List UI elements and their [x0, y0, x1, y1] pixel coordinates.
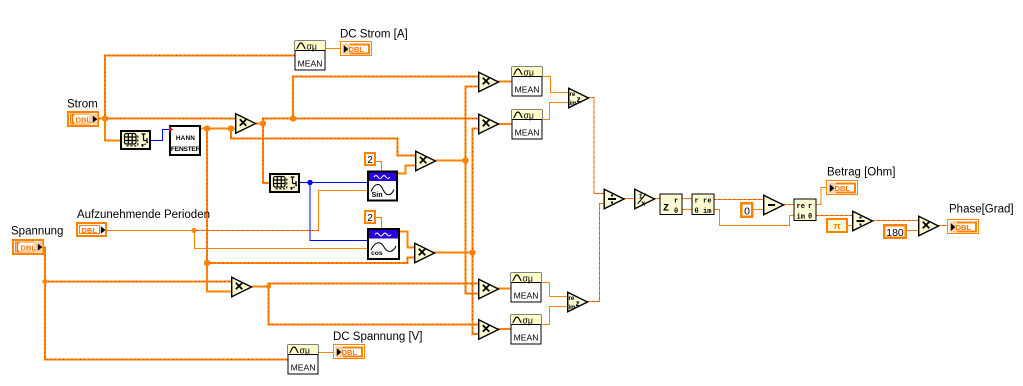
polar-to-complex — [692, 194, 714, 216]
junction blue array size — [307, 180, 312, 185]
MEAN2 — [512, 110, 542, 139]
svg-text:cos: cos — [371, 250, 383, 257]
wire Perioden to sine phase — [195, 191, 369, 231]
array size 2 — [270, 174, 299, 192]
svg-text:im: im — [703, 208, 711, 216]
svg-text:DBL: DBL — [82, 226, 98, 235]
multiply M1 — [479, 72, 499, 92]
wire theta to polar-to-complex — [682, 209, 693, 211]
constant 0 — [741, 203, 752, 217]
wire DC-Strom MEAN to indicator — [326, 48, 340, 50]
svg-text:re: re — [703, 198, 711, 206]
wire M3 to MEAN3 — [498, 288, 511, 290]
multiply cosine — [415, 243, 435, 263]
MEAN3 — [511, 273, 541, 302]
wire complex im to block3 im — [714, 210, 795, 226]
svg-text:im: im — [797, 214, 805, 222]
constant pi — [827, 219, 847, 232]
wire windowed current riser to M1 input1 — [293, 77, 479, 120]
svg-text:DC Spannung [V]: DC Spannung [V] — [333, 331, 423, 343]
wire Perioden to junction — [107, 230, 195, 232]
wire MEAN1 to complex1 re — [543, 77, 569, 93]
wire Perioden to cosine phase — [195, 231, 369, 249]
wire constant 2a to sine — [376, 162, 382, 172]
wire cosine product bus up to M2 input2 — [473, 129, 480, 254]
junction strom — [102, 115, 108, 121]
multiply M4 — [479, 320, 499, 340]
multiply A — [236, 114, 256, 134]
multiply M3 — [479, 279, 499, 299]
indicator Phase — [948, 220, 979, 234]
wire hann bus to cosine multiply input2 — [206, 258, 415, 264]
svg-text:Phase[Grad]: Phase[Grad] — [949, 204, 1014, 216]
wire multiply U output — [251, 286, 270, 288]
junction spannung — [42, 279, 47, 284]
multiply M2 — [479, 114, 499, 134]
Hann Fenster subVI — [169, 126, 201, 155]
wire subtract to complex-to-polar 2 — [784, 204, 795, 206]
complex2 re-im-to-z — [568, 292, 588, 312]
complex-to-polar Z — [660, 194, 682, 216]
wire Spannung to multiply U input1 — [44, 248, 232, 282]
reciprocal 1/x — [635, 189, 655, 209]
wire constant 180 to multiply5 input2 — [907, 230, 919, 232]
svg-text:2: 2 — [367, 155, 373, 166]
cosine pattern VI — [368, 229, 399, 259]
svg-text:180: 180 — [886, 227, 904, 239]
wire r2 to Betrag indicator — [816, 188, 827, 205]
MEAN DC Spannung — [288, 345, 318, 374]
svg-text:DC Strom [A]: DC Strom [A] — [340, 29, 408, 41]
svg-text:2: 2 — [367, 213, 373, 224]
svg-text:θ: θ — [695, 208, 699, 216]
MEAN1 — [512, 67, 542, 96]
wire divide to reciprocal — [624, 198, 635, 200]
constant 2 cosine — [365, 211, 375, 224]
wire Hann Fenster output to multiply A input2 — [200, 128, 236, 130]
wire windowed voltage to M4 input1 — [269, 286, 480, 325]
control Strom — [68, 112, 98, 126]
multiply5 — [919, 216, 939, 236]
wire complex2 to divide input2 — [587, 204, 604, 302]
wire MEAN4 to complex2 im — [542, 307, 568, 325]
sine pattern VI — [368, 172, 397, 201]
wire cosine output to cosine multiply input1 — [399, 232, 415, 248]
wire blue array-size1 to Hann Fenster — [151, 130, 170, 141]
wire multiply5 to Phase indicator — [938, 225, 948, 227]
junction windowed current riser — [290, 115, 296, 121]
indicator DC Spannung — [334, 345, 365, 359]
wire constant 2b to cosine — [376, 218, 382, 229]
wire reciprocal to complex-to-polar — [654, 198, 661, 200]
junction multiplyA out — [260, 120, 266, 126]
junction multiplyU out — [266, 284, 271, 289]
wire multiply A output jog — [255, 119, 263, 124]
svg-text:π: π — [833, 221, 841, 232]
junction hann-sine branch — [228, 125, 234, 131]
svg-text:r: r — [808, 203, 812, 211]
indicator Betrag — [827, 181, 858, 195]
junction sine product — [462, 157, 468, 163]
wire M4 to MEAN4 — [498, 328, 511, 330]
wire cosine product to bus — [434, 252, 474, 254]
constant 2 sine — [365, 153, 375, 166]
wire sine product bus up to M1 input2 — [466, 87, 480, 162]
svg-text:Z: Z — [663, 204, 669, 215]
svg-text:FENSTER: FENSTER — [171, 146, 201, 153]
wire sine product bus down to M3 input2 — [466, 160, 480, 294]
divide1 — [604, 189, 624, 209]
wire pi to divide2 input2 — [848, 225, 853, 227]
svg-text:θ: θ — [674, 208, 678, 216]
svg-text:HANN: HANN — [176, 135, 195, 142]
wire divide2 to multiply5 input1 — [873, 220, 919, 222]
multiply sine — [416, 151, 436, 171]
wire Spannung bus down to DC-Spannung MEAN — [45, 281, 288, 360]
wire Strom branch down to array-size 1 — [105, 118, 120, 141]
svg-text:Aufzunehmende Perioden: Aufzunehmende Perioden — [77, 209, 210, 221]
wire blue array-size2 to sine — [300, 182, 368, 184]
svg-text:re: re — [797, 203, 805, 211]
wire windowed voltage to M3 input1 — [269, 284, 480, 288]
wire complex re to subtract input1 — [714, 199, 764, 201]
wire M1 to MEAN1 — [498, 81, 512, 83]
wire complex1 to divide input1 — [588, 98, 604, 194]
svg-text:r: r — [695, 198, 699, 206]
control Aufzunehmende Perioden — [77, 223, 106, 236]
multiply U — [232, 277, 252, 297]
svg-text:θ: θ — [808, 214, 812, 222]
wire cosine product bus down to M4 input2 — [473, 252, 480, 334]
wire M2 to MEAN2 — [498, 123, 512, 125]
control Spannung — [13, 240, 43, 254]
complex1 re-im-to-z — [569, 88, 589, 108]
svg-text:Spannung: Spannung — [11, 226, 63, 238]
junction hann low — [204, 260, 210, 266]
svg-text:r: r — [674, 198, 678, 206]
wire DC-Spannung MEAN to indicator — [318, 352, 333, 354]
wire windowed current down to array-size 2 — [263, 118, 269, 183]
wire hann bus to Spannung multiply input2 — [207, 262, 232, 292]
junction cosine product — [469, 249, 475, 255]
wire MEAN3 to complex2 re — [542, 283, 568, 297]
wire sine product to bus — [435, 160, 467, 162]
wire Strom branch up to DC-Strom MEAN — [105, 56, 295, 120]
wire theta2 to divide2 input1 — [816, 215, 853, 217]
divide2 — [853, 211, 873, 231]
wire Strom array to multiply A input1 — [99, 118, 236, 120]
wire hann bus down — [206, 129, 208, 264]
complex-to-polar 2 — [794, 199, 816, 222]
wire hann branch to sine multiply input1 — [231, 129, 416, 156]
wire constant 0 to subtract input2 — [753, 209, 764, 211]
svg-text:Strom: Strom — [67, 99, 98, 111]
svg-text:Betrag [Ohm]: Betrag [Ohm] — [827, 167, 895, 179]
wire windowed current to M2 input1 — [262, 118, 479, 120]
wire MEAN2 to complex1 im — [543, 103, 569, 120]
MEAN DC Strom — [295, 41, 325, 70]
junction hann out — [204, 125, 210, 131]
junction perioden — [191, 228, 196, 233]
constant 180 — [884, 225, 906, 239]
wire r to polar-to-complex — [682, 198, 693, 200]
svg-text:Sin: Sin — [372, 190, 383, 199]
array size 1 — [121, 131, 150, 149]
indicator DC Strom — [341, 42, 372, 56]
wire blue array-size2 to cosine — [310, 183, 368, 241]
svg-text:0: 0 — [744, 205, 750, 217]
MEAN4 — [511, 315, 541, 344]
wire sine output to sine multiply input2 — [398, 166, 416, 174]
subtract — [764, 195, 784, 215]
